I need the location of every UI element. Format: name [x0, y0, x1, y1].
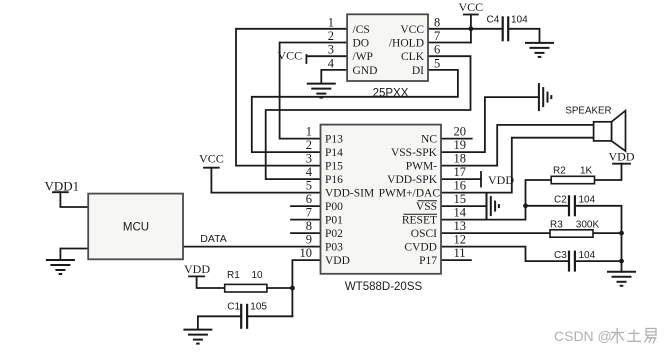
svg-text:19: 19 — [454, 138, 467, 152]
svg-text:VDD: VDD — [325, 255, 350, 267]
svg-text:VDD: VDD — [488, 173, 514, 187]
svg-text:VSS: VSS — [416, 201, 437, 213]
svg-text:300K: 300K — [576, 220, 600, 231]
svg-text:CVDD: CVDD — [404, 242, 437, 254]
svg-text:PWM+/DAC: PWM+/DAC — [379, 188, 441, 200]
svg-text:P17: P17 — [419, 255, 437, 267]
svg-text:10: 10 — [252, 270, 264, 281]
svg-text:P03: P03 — [325, 242, 343, 254]
svg-text:8: 8 — [306, 219, 312, 233]
svg-text:104: 104 — [579, 250, 596, 261]
svg-text:P15: P15 — [325, 161, 343, 173]
svg-text:P00: P00 — [325, 201, 343, 213]
svg-text:C4: C4 — [487, 14, 500, 25]
svg-text:2: 2 — [328, 29, 334, 43]
svg-text:R3: R3 — [550, 220, 563, 231]
svg-text:20: 20 — [454, 125, 467, 139]
svg-text:DATA: DATA — [200, 233, 226, 245]
svg-text:OSCI: OSCI — [411, 228, 437, 240]
svg-text:9: 9 — [306, 233, 312, 247]
svg-text:MCU: MCU — [123, 222, 149, 234]
svg-text:C1: C1 — [227, 302, 240, 313]
svg-text:GND: GND — [353, 65, 378, 77]
svg-text:14: 14 — [454, 206, 467, 220]
svg-text:4: 4 — [328, 56, 335, 70]
svg-text:RESET: RESET — [402, 215, 437, 227]
svg-text:PWM-: PWM- — [406, 161, 437, 173]
svg-text:R2: R2 — [553, 166, 566, 177]
svg-text:CLK: CLK — [401, 51, 425, 63]
svg-text:VCC: VCC — [458, 0, 483, 14]
svg-text:/WP: /WP — [353, 51, 373, 63]
svg-text:6: 6 — [434, 43, 440, 57]
svg-text:7: 7 — [434, 29, 440, 43]
svg-text:DI: DI — [412, 65, 424, 77]
svg-text:13: 13 — [454, 219, 467, 233]
svg-text:104: 104 — [579, 195, 596, 206]
svg-text:105: 105 — [250, 302, 267, 313]
svg-text:7: 7 — [306, 206, 312, 220]
svg-text:11: 11 — [454, 246, 466, 260]
svg-text:VCC: VCC — [199, 152, 224, 166]
svg-text:P02: P02 — [325, 228, 343, 240]
svg-text:/CS: /CS — [353, 24, 370, 36]
svg-text:104: 104 — [511, 14, 528, 25]
svg-text:VDD: VDD — [609, 150, 635, 164]
svg-text:16: 16 — [454, 179, 467, 193]
svg-text:/HOLD: /HOLD — [389, 38, 424, 50]
svg-text:18: 18 — [454, 152, 467, 166]
svg-text:VCC: VCC — [277, 49, 302, 63]
svg-text:P01: P01 — [325, 215, 343, 227]
svg-text:25PXX: 25PXX — [373, 88, 409, 100]
svg-text:5: 5 — [306, 179, 312, 193]
svg-text:12: 12 — [454, 233, 467, 247]
svg-text:R1: R1 — [227, 270, 240, 281]
svg-text:4: 4 — [306, 165, 313, 179]
svg-text:VSS-SPK: VSS-SPK — [391, 147, 438, 159]
svg-text:WT588D-20SS: WT588D-20SS — [345, 281, 423, 293]
svg-text:VCC: VCC — [400, 24, 424, 36]
svg-text:VDD-SPK: VDD-SPK — [387, 174, 438, 186]
svg-text:VDD: VDD — [184, 262, 210, 276]
svg-text:3: 3 — [328, 43, 334, 57]
svg-text:VDD1: VDD1 — [44, 179, 79, 194]
svg-text:VDD-SIM: VDD-SIM — [325, 188, 374, 200]
svg-text:1: 1 — [306, 125, 312, 139]
svg-text:SPEAKER: SPEAKER — [565, 106, 611, 117]
svg-text:10: 10 — [300, 246, 313, 260]
svg-text:17: 17 — [454, 165, 467, 179]
svg-text:CSDN @: CSDN @ — [554, 328, 612, 344]
svg-text:6: 6 — [306, 192, 312, 206]
svg-text:P16: P16 — [325, 174, 343, 186]
svg-text:P13: P13 — [325, 134, 343, 146]
svg-text:15: 15 — [454, 192, 467, 206]
svg-text:NC: NC — [421, 134, 437, 146]
svg-text:8: 8 — [434, 15, 440, 29]
svg-text:C2: C2 — [554, 195, 567, 206]
svg-text:5: 5 — [434, 56, 440, 70]
svg-text:C3: C3 — [554, 250, 567, 261]
svg-text:P14: P14 — [325, 147, 343, 159]
svg-text:3: 3 — [306, 152, 312, 166]
svg-text:1: 1 — [328, 15, 334, 29]
svg-text:2: 2 — [306, 138, 312, 152]
svg-text:1K: 1K — [580, 166, 593, 177]
svg-text:DO: DO — [353, 38, 370, 50]
